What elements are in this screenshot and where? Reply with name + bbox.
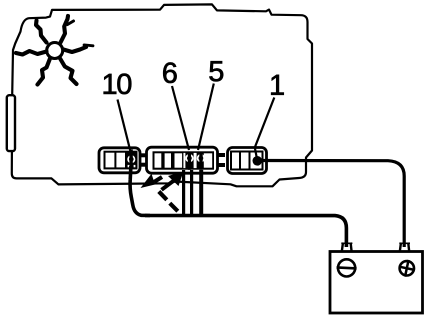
fan blade upper-left <box>36 21 47 43</box>
dashed swap arrow head (down-left) <box>141 174 156 188</box>
leader line for label 6 <box>172 86 189 150</box>
dashed swap arrow dash 2 <box>159 192 167 200</box>
wire from terminal 10 down to battery run <box>130 166 150 216</box>
connector link B-C <box>217 153 226 157</box>
terminal 6 screw <box>186 155 193 162</box>
engine compartment body outline <box>12 4 312 186</box>
side marker capsule on left edge <box>7 95 15 151</box>
battery negative post <box>342 243 352 252</box>
connector link A-B <box>139 153 148 157</box>
svg-text:10: 10 <box>101 69 131 101</box>
fuse block B inner <box>153 151 215 169</box>
battery positive symbol <box>400 261 414 275</box>
fan blade upper-right <box>61 16 69 43</box>
leader line for label 5 <box>198 84 214 151</box>
battery case <box>330 252 423 314</box>
wire run to battery negative <box>145 216 346 248</box>
dashed swap arrow dash 3 <box>170 203 178 211</box>
wire from terminal 6b <box>190 170 193 215</box>
fan hub <box>47 43 63 59</box>
fuse block C (right) outer <box>228 148 267 174</box>
leader line for label 1 <box>255 98 274 159</box>
battery negative symbol <box>338 259 355 276</box>
fan blade lower-left <box>38 59 51 85</box>
wire from terminal 5 <box>199 170 203 215</box>
fan blade right <box>64 47 87 52</box>
terminal 10 screw <box>126 152 137 169</box>
svg-text:5: 5 <box>208 56 224 88</box>
fan blade left <box>16 51 47 55</box>
terminal 1 contact <box>252 156 262 166</box>
leader line for label 10 <box>118 100 131 153</box>
svg-text:1: 1 <box>269 70 285 102</box>
wire from terminal 1 to battery positive <box>259 161 404 248</box>
dashed swap arrow tail dash <box>154 177 162 182</box>
terminal 5 screw <box>198 155 205 162</box>
fan blade lower-right <box>60 58 77 85</box>
fuse block C inner cells <box>231 152 263 170</box>
fuse block A (left) outer <box>99 148 140 173</box>
fuse block B (middle) outer <box>147 147 218 173</box>
svg-text:6: 6 <box>162 58 178 90</box>
fuse block A inner cells <box>105 152 137 169</box>
battery positive post <box>400 243 409 252</box>
wire from terminal 6 <box>182 170 185 215</box>
dashed swap arrow head (up-right) <box>168 172 184 187</box>
dashed swap arrow shaft (solid) <box>162 181 174 190</box>
